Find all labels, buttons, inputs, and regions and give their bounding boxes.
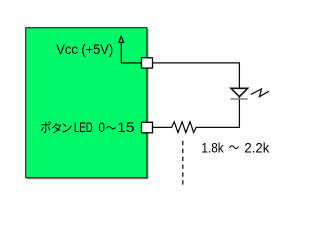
svg-text:2.2k: 2.2k (244, 141, 269, 156)
svg-text:1.8k: 1.8k (201, 141, 223, 156)
svg-text:LED: LED (74, 119, 93, 135)
svg-text:0: 0 (98, 119, 105, 135)
svg-text:15: 15 (117, 119, 135, 135)
svg-text:Vcc (+5V): Vcc (+5V) (56, 41, 113, 57)
